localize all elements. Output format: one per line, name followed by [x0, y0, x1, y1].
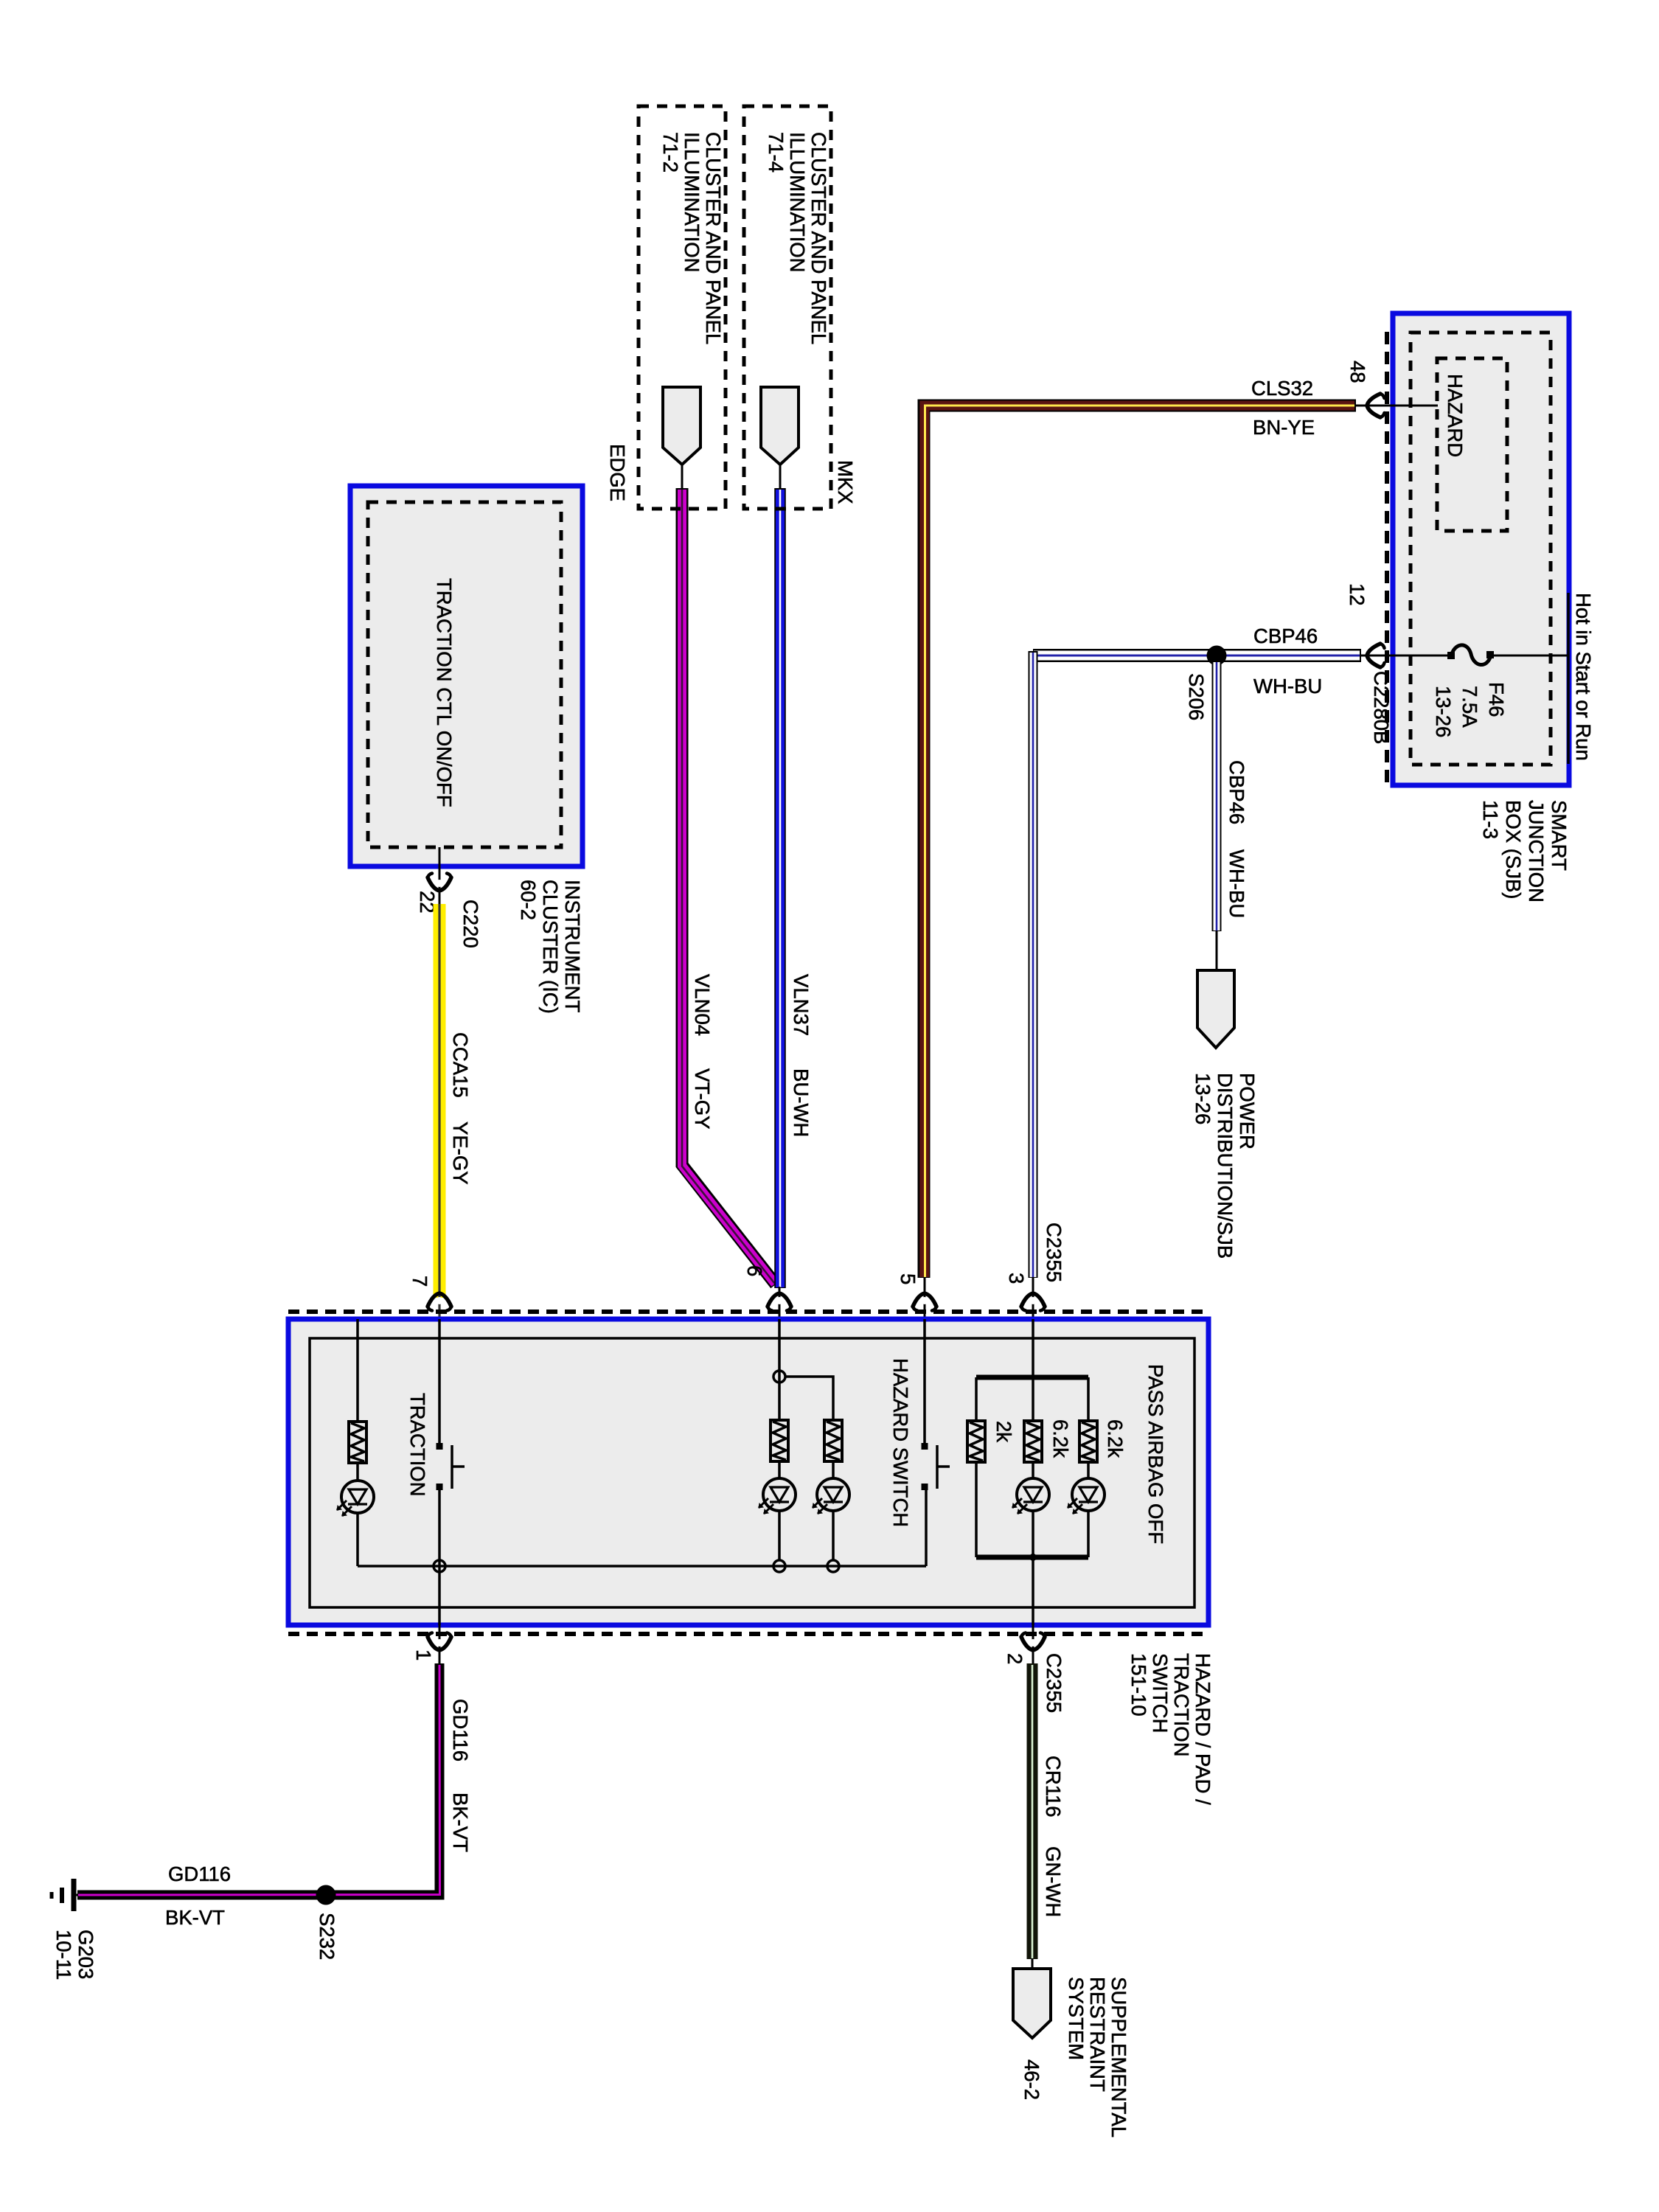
- resistor hazard right: [824, 1420, 842, 1461]
- hot feed bar: [1567, 593, 1570, 764]
- svg-text:F46: F46: [1485, 682, 1508, 717]
- dashed box: CLUSTER AND PANEL ILLUMINATION 71-4 (MKX): [744, 106, 831, 509]
- resistor 6.2k middle: [1024, 1421, 1042, 1462]
- svg-text:WH-BU: WH-BU: [1225, 849, 1248, 918]
- label GN-WH: [1042, 1846, 1065, 1917]
- wire bottom bar to pin 2: [1032, 1557, 1034, 1625]
- wire CCA15 YE-GY (yellow): [434, 904, 446, 1320]
- svg-text:MKX: MKX: [834, 460, 857, 504]
- svg-text:CR116: CR116: [1042, 1756, 1065, 1818]
- connector C220 arrow: [428, 874, 451, 891]
- wire CLS32 BN-YE (brown): [924, 406, 1356, 1278]
- wire GD116 BK-VT (black-violet): [77, 1663, 440, 1895]
- wire VLN04 VT-GY (violet): [682, 488, 776, 1284]
- wire stub pin5: [924, 1277, 926, 1320]
- svg-text:TRACTION: TRACTION: [406, 1393, 429, 1497]
- svg-text:INSTRUMENT: INSTRUMENT: [561, 880, 584, 1012]
- wire VLN37 BU-WH (blue): [774, 488, 786, 1288]
- resistor hazard left: [771, 1420, 788, 1461]
- smart junction box SJB: [1393, 313, 1569, 785]
- splice S232: [316, 1885, 336, 1905]
- connector pentagon SUPPLEMENTAL RESTRAINT SYSTEM: [1013, 1969, 1051, 2038]
- wire right LED to bottom bar: [1087, 1511, 1090, 1557]
- connector dashed line bottom of switch box: [288, 1632, 1209, 1636]
- svg-text:RESTRAINT: RESTRAINT: [1086, 1977, 1109, 2092]
- pin3 wire inside box: [1032, 1319, 1034, 1377]
- branch to right hazard lamp: [785, 1377, 833, 1420]
- connector arrow pin 48: [1367, 394, 1385, 417]
- junction circle right lamp/rail: [827, 1560, 839, 1572]
- svg-text:1: 1: [412, 1649, 435, 1660]
- wire CR116 GN-WH (green-white): [1027, 1663, 1038, 1959]
- connector arrow pin 1: [428, 1633, 451, 1651]
- hazard/pad/traction switch box: [288, 1319, 1208, 1625]
- svg-text:WH-BU: WH-BU: [1253, 675, 1322, 698]
- label S232: [316, 1913, 338, 1960]
- middle 6.2k branch: [1032, 1377, 1034, 1422]
- pin 1: [412, 1649, 435, 1660]
- wire left LED to rail: [778, 1511, 781, 1560]
- wire CBP46 WH-BU vertical to pin 3: [1029, 651, 1038, 1278]
- wire inside SJB pin48 to HAZARD: [1391, 405, 1438, 407]
- wire left resistor to LED: [778, 1461, 781, 1478]
- label 46-2: [1020, 2059, 1043, 2100]
- junction circle left lamp/rail: [773, 1560, 785, 1572]
- label CR116: [1042, 1756, 1065, 1818]
- label S206: [1185, 673, 1208, 720]
- label WH-BU (S206 branch): [1225, 849, 1248, 918]
- svg-text:JUNCTION: JUNCTION: [1525, 800, 1548, 902]
- label C2280B: [1370, 671, 1393, 744]
- junction dot bottom bar: [1029, 1554, 1037, 1561]
- svg-text:13-26: 13-26: [1432, 686, 1455, 737]
- label CCA15: [449, 1032, 472, 1098]
- label VLN04: [691, 974, 714, 1036]
- label F46 7.5A 13-26: [1432, 682, 1508, 737]
- connector pentagon POWER DISTRIBUTION: [1197, 970, 1234, 1048]
- label MKX: [834, 460, 857, 504]
- fuse F46: [1447, 645, 1494, 665]
- LED traction: [337, 1481, 374, 1516]
- svg-text:46-2: 46-2: [1020, 2059, 1043, 2100]
- label HAZARD / PAD / TRACTION SWITCH 151-10: [1127, 1653, 1214, 1805]
- hazard switch contact: [922, 1443, 950, 1490]
- wire CBP46 WH-BU horizontal (white-blue): [1033, 649, 1361, 662]
- connector pentagon in MKX box: [761, 387, 799, 490]
- connector arrow pin 12: [1367, 644, 1385, 667]
- svg-text:3: 3: [1005, 1273, 1028, 1284]
- svg-text:BU-WH: BU-WH: [790, 1068, 813, 1137]
- pin 5: [897, 1273, 919, 1284]
- pin 2: [1004, 1653, 1026, 1664]
- svg-text:CLS32: CLS32: [1251, 377, 1313, 400]
- wire stub pin 1: [439, 1625, 441, 1665]
- svg-text:CBP46: CBP46: [1225, 760, 1248, 824]
- svg-text:C2280B: C2280B: [1370, 671, 1393, 744]
- svg-text:SMART: SMART: [1548, 800, 1571, 871]
- svg-text:2: 2: [1004, 1653, 1026, 1664]
- svg-text:SUPPLEMENTAL: SUPPLEMENTAL: [1107, 1977, 1130, 2138]
- label VT-GY: [691, 1068, 714, 1130]
- wire stub pin48: [1356, 405, 1391, 407]
- wire CBP46 WH-BU branch down from S206: [1212, 661, 1222, 931]
- pin 48: [1346, 361, 1369, 383]
- svg-text:TRACTION: TRACTION: [1170, 1653, 1193, 1757]
- svg-text:5: 5: [897, 1273, 919, 1284]
- svg-text:VT-GY: VT-GY: [691, 1068, 714, 1130]
- svg-text:SWITCH: SWITCH: [1149, 1653, 1172, 1733]
- svg-text:CCA15: CCA15: [449, 1032, 472, 1098]
- LED pass airbag middle: [1012, 1478, 1049, 1514]
- junction circle hazard lamps: [773, 1371, 785, 1382]
- svg-text:C2355: C2355: [1043, 1653, 1065, 1713]
- wire LED to rail: [356, 1513, 359, 1566]
- dashed box: CLUSTER AND PANEL ILLUMINATION 71-2 (EDGE): [639, 106, 726, 509]
- resistor 2k: [967, 1421, 985, 1462]
- svg-text:BOX (SJB): BOX (SJB): [1502, 800, 1525, 899]
- wire middle LED to bottom bar: [1032, 1511, 1034, 1557]
- label POWER DISTRIBUTION/SJB 13-26: [1192, 1073, 1259, 1259]
- pin6 wire inside box: [778, 1319, 781, 1420]
- svg-text:BK-VT: BK-VT: [449, 1792, 472, 1852]
- svg-text:6: 6: [743, 1265, 766, 1276]
- splice S206: [1207, 646, 1227, 666]
- svg-text:ILLUMINATION: ILLUMINATION: [786, 132, 809, 273]
- svg-text:151-10: 151-10: [1127, 1653, 1150, 1717]
- label SMART JUNCTION BOX (SJB) 11-3: [1479, 800, 1571, 902]
- wire stub pin12: [1360, 655, 1391, 657]
- svg-text:7: 7: [408, 1276, 431, 1287]
- svg-text:TRACTION CTL ON/OFF: TRACTION CTL ON/OFF: [433, 578, 456, 807]
- connector arrow pin 3: [1021, 1293, 1045, 1311]
- svg-text:12: 12: [1346, 583, 1368, 606]
- wire fuse to pin 12: [1391, 655, 1451, 657]
- wire from IC box to C220: [439, 847, 441, 907]
- label C2355 (pin 2): [1043, 1653, 1065, 1713]
- wire contact to junction: [438, 1487, 441, 1625]
- ground G203: [52, 1879, 77, 1911]
- connector arrow pin 2: [1021, 1633, 1045, 1651]
- connector dashed line top of switch box: [288, 1310, 1209, 1314]
- svg-text:BN-YE: BN-YE: [1253, 416, 1315, 439]
- left 2k branch wire: [975, 1377, 978, 1422]
- wire into pin 6: [779, 1287, 781, 1320]
- wire stub pin3: [1032, 1277, 1034, 1320]
- label Hot in Start or Run: [1572, 593, 1595, 761]
- label C2355 (pin 3): [1043, 1222, 1065, 1282]
- right 6.2k branch: [1087, 1377, 1090, 1422]
- label VLN37: [790, 974, 813, 1036]
- pin7 wire inside box: [438, 1319, 441, 1446]
- svg-text:CLUSTER AND PANEL: CLUSTER AND PANEL: [807, 132, 830, 344]
- wire right LED to rail: [832, 1511, 835, 1560]
- resistor 6.2k right: [1079, 1421, 1097, 1462]
- instrument cluster box TRACTION CTL ON/OFF: [350, 486, 582, 866]
- svg-text:CLUSTER AND PANEL: CLUSTER AND PANEL: [702, 132, 725, 344]
- wire right resistor to LED: [1087, 1462, 1090, 1478]
- connector arrow pin 5: [913, 1293, 936, 1311]
- svg-text:YE-GY: YE-GY: [449, 1121, 472, 1185]
- traction switch contact: [437, 1443, 465, 1490]
- wire hot feed to fuse: [1491, 655, 1568, 657]
- label TRACTION: [406, 1393, 429, 1497]
- svg-text:HAZARD / PAD /: HAZARD / PAD /: [1192, 1653, 1214, 1805]
- pin 3: [1005, 1273, 1028, 1284]
- label EDGE: [606, 444, 629, 501]
- pin 22: [416, 891, 439, 914]
- svg-text:C2355: C2355: [1043, 1222, 1065, 1282]
- label SUPPLEMENTAL RESTRAINT SYSTEM: [1065, 1977, 1130, 2138]
- bottom rail: [358, 1565, 926, 1568]
- resistor traction: [349, 1422, 366, 1463]
- connector pentagon in EDGE box: [663, 387, 700, 490]
- pin 6: [743, 1265, 766, 1276]
- label GD116 (vertical): [449, 1699, 472, 1761]
- label HAZARD SWITCH: [889, 1358, 912, 1527]
- connector arrow pin 7: [428, 1293, 451, 1311]
- wire middle resistor to LED: [1032, 1462, 1034, 1478]
- svg-text:CBP46: CBP46: [1253, 625, 1318, 647]
- svg-text:60-2: 60-2: [517, 880, 540, 920]
- svg-text:Hot in Start or Run: Hot in Start or Run: [1572, 593, 1595, 761]
- wire resistor to LED: [356, 1463, 359, 1481]
- wire 2k to bottom bar: [975, 1462, 978, 1557]
- LED hazard left: [759, 1478, 796, 1514]
- svg-text:VLN37: VLN37: [790, 974, 813, 1036]
- HAZARD dashed box in SJB: [1437, 358, 1507, 531]
- label INSTRUMENT CLUSTER (IC) 60-2: [517, 880, 584, 1014]
- wire to SRS pentagon: [1032, 1958, 1034, 1970]
- svg-text:S232: S232: [316, 1913, 338, 1960]
- LED pass airbag right: [1068, 1478, 1105, 1514]
- svg-text:48: 48: [1346, 361, 1369, 383]
- label G203 10-11: [52, 1930, 97, 1980]
- pin 7: [408, 1276, 431, 1287]
- label 6.2k middle: [1049, 1419, 1072, 1458]
- label YE-GY: [449, 1121, 472, 1185]
- svg-text:GN-WH: GN-WH: [1042, 1846, 1065, 1917]
- wire rail up to hazard contact: [925, 1487, 928, 1566]
- svg-text:POWER: POWER: [1236, 1073, 1259, 1150]
- LED hazard right: [813, 1478, 849, 1514]
- svg-text:C220: C220: [459, 900, 482, 948]
- label BK-VT (vertical): [449, 1792, 472, 1852]
- svg-text:SYSTEM: SYSTEM: [1065, 1977, 1088, 2060]
- label CBP46 (S206 branch): [1225, 760, 1248, 824]
- svg-text:EDGE: EDGE: [606, 444, 629, 501]
- pass airbag bottom bar: [976, 1555, 1088, 1560]
- svg-text:S206: S206: [1185, 673, 1208, 720]
- svg-text:6.2k: 6.2k: [1049, 1419, 1072, 1458]
- svg-text:71-2: 71-2: [659, 132, 682, 173]
- label 2k: [992, 1421, 1015, 1442]
- svg-text:71-4: 71-4: [765, 132, 787, 173]
- svg-text:GD116: GD116: [449, 1699, 472, 1761]
- pin5 wire inside box: [923, 1319, 926, 1446]
- svg-text:CLUSTER (IC): CLUSTER (IC): [539, 880, 562, 1014]
- svg-text:VLN04: VLN04: [691, 974, 714, 1036]
- SJB outer connector dashed line: [1385, 332, 1389, 783]
- svg-text:DISTRIBUTION/SJB: DISTRIBUTION/SJB: [1214, 1073, 1237, 1259]
- label C220: [459, 900, 482, 948]
- wire to power distribution pentagon: [1216, 931, 1218, 972]
- svg-text:BK-VT: BK-VT: [165, 1906, 225, 1929]
- svg-text:PASS AIRBAG OFF: PASS AIRBAG OFF: [1144, 1364, 1167, 1544]
- pin 12: [1346, 583, 1368, 606]
- svg-text:HAZARD: HAZARD: [1444, 374, 1467, 457]
- svg-text:ILLUMINATION: ILLUMINATION: [681, 132, 703, 273]
- wire right resistor to LED: [832, 1461, 835, 1478]
- wire stub pin 2: [1032, 1625, 1034, 1665]
- svg-text:13-26: 13-26: [1192, 1073, 1214, 1124]
- label 6.2k right: [1104, 1419, 1127, 1458]
- connector arrow pin 6: [768, 1293, 791, 1311]
- junction circle pin7/rail: [434, 1560, 445, 1572]
- svg-text:11-3: 11-3: [1479, 800, 1502, 839]
- pass airbag top bar: [976, 1375, 1088, 1380]
- svg-text:10-11: 10-11: [52, 1930, 75, 1980]
- svg-text:2k: 2k: [992, 1421, 1015, 1442]
- label BU-WH: [790, 1068, 813, 1137]
- label PASS AIRBAG OFF: [1144, 1364, 1167, 1544]
- svg-text:7.5A: 7.5A: [1458, 686, 1481, 728]
- svg-text:6.2k: 6.2k: [1104, 1419, 1127, 1458]
- svg-text:G203: G203: [74, 1930, 97, 1979]
- svg-text:HAZARD SWITCH: HAZARD SWITCH: [889, 1358, 912, 1527]
- svg-text:GD116: GD116: [168, 1863, 231, 1885]
- TRACTION lamp branch wire: [356, 1319, 359, 1422]
